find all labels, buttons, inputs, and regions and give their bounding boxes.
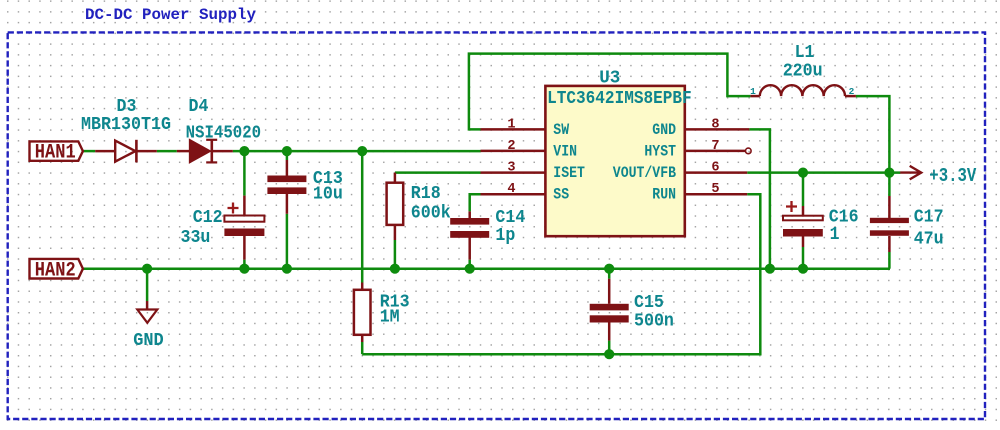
svg-text:2: 2 [507,139,515,154]
svg-text:1: 1 [750,86,756,97]
svg-text:C15: C15 [634,293,664,313]
svg-text:600k: 600k [411,204,451,224]
svg-text:8: 8 [711,117,719,132]
svg-text:DC-DC Power Supply: DC-DC Power Supply [85,6,256,24]
svg-text:1: 1 [830,225,840,245]
svg-text:ISET: ISET [553,164,585,182]
svg-text:LTC3642IMS8EPBF: LTC3642IMS8EPBF [547,89,692,109]
svg-text:C14: C14 [495,208,525,228]
svg-text:4: 4 [507,182,515,197]
svg-text:6: 6 [711,161,719,176]
svg-text:L1: L1 [795,43,815,63]
svg-text:D4: D4 [189,97,209,117]
svg-text:10u: 10u [313,184,343,204]
svg-text:C12: C12 [193,208,223,228]
svg-text:HYST: HYST [644,143,676,161]
svg-text:1p: 1p [495,226,515,246]
svg-text:2: 2 [849,86,855,97]
svg-text:+3.3V: +3.3V [929,165,976,187]
svg-text:1: 1 [507,117,515,132]
svg-text:HAN1: HAN1 [35,142,76,165]
svg-text:5: 5 [711,182,719,197]
svg-text:GND: GND [652,121,676,139]
svg-text:500n: 500n [634,312,674,332]
svg-text:VIN: VIN [553,143,577,161]
svg-text:NSI45020: NSI45020 [186,124,262,144]
svg-text:C17: C17 [914,207,944,227]
svg-text:R18: R18 [411,184,441,204]
svg-text:GND: GND [133,331,164,351]
svg-text:7: 7 [711,139,719,154]
svg-text:VOUT/VFB: VOUT/VFB [613,164,677,182]
svg-text:220u: 220u [783,62,823,82]
svg-text:HAN2: HAN2 [35,259,76,282]
svg-text:SW: SW [553,121,569,139]
svg-text:3: 3 [507,161,515,176]
svg-text:MBR130T1G: MBR130T1G [81,115,171,135]
svg-text:RUN: RUN [652,186,676,204]
svg-text:33u: 33u [181,228,211,248]
svg-text:U3: U3 [599,69,620,89]
svg-text:1M: 1M [380,307,400,327]
svg-text:SS: SS [553,186,569,204]
svg-text:47u: 47u [914,229,944,249]
